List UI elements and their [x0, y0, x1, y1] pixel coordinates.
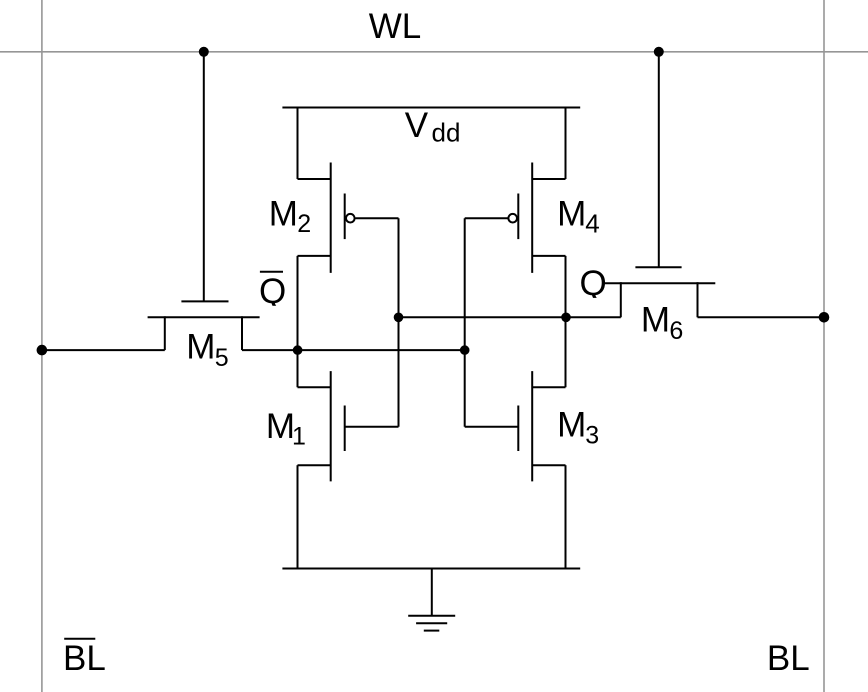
wire M6 drain to BL — [698, 316, 825, 318]
node Q vertical (M4 drain to M3 drain) — [565, 256, 567, 387]
wire M3 source to ground rail — [565, 465, 567, 569]
wire node Q to M1/M2 gate column and M6 source — [399, 316, 621, 318]
overbar of Q-bar — [260, 271, 283, 273]
svg-text:M: M — [557, 406, 586, 445]
transistor M6 (access NMOS, right) — [605, 267, 716, 317]
transistor M3 (NMOS, right pull-down) — [465, 371, 566, 481]
wire WL to M5 gate — [203, 52, 205, 302]
wire BL-bar to M5 source — [42, 349, 165, 351]
junction on WL at M6 gate — [654, 47, 664, 57]
svg-text:1: 1 — [292, 423, 306, 451]
wire M1 source to ground rail — [297, 465, 299, 569]
junction node Q — [561, 313, 571, 323]
node Q-bar vertical (M2 drain to M1 drain) — [297, 256, 299, 387]
junction at M3/M4 gate column — [460, 345, 470, 355]
svg-text:M: M — [269, 195, 298, 234]
Vdd rail — [282, 107, 580, 109]
svg-text:M: M — [557, 195, 586, 234]
svg-text:dd: dd — [432, 118, 461, 148]
svg-text:BL: BL — [767, 639, 810, 678]
svg-text:M: M — [186, 328, 215, 367]
bit line BL (right vertical, gray) — [823, 0, 825, 692]
svg-text:Q: Q — [259, 272, 286, 311]
wire M3/M4 gates column (cross-couple, right) — [464, 218, 466, 427]
junction on BL-bar — [37, 345, 48, 356]
svg-text:3: 3 — [585, 422, 599, 450]
svg-text:M: M — [641, 301, 670, 340]
transistor M4 (PMOS, right pull-up) — [465, 163, 566, 273]
junction at M1/M2 gate column — [394, 313, 404, 323]
ground rail — [282, 568, 580, 570]
bit line BL-bar (left vertical, gray) — [41, 0, 43, 692]
wire Vdd to M2 source — [297, 107, 299, 180]
transistor M2 (PMOS, left pull-up) — [298, 163, 399, 273]
wire Vdd to M4 source — [565, 107, 567, 180]
svg-text:4: 4 — [585, 208, 599, 238]
overbar of BL-bar — [64, 638, 95, 640]
junction on WL at M5 gate — [199, 47, 209, 57]
svg-text:2: 2 — [297, 210, 311, 238]
junction on BL — [819, 312, 830, 323]
ground symbol — [408, 569, 455, 631]
wire M1/M2 gates column (cross-couple, left) — [398, 218, 400, 427]
svg-text:5: 5 — [215, 344, 229, 372]
svg-text:6: 6 — [669, 317, 683, 345]
transistor M5 (access NMOS, left) — [148, 301, 260, 350]
svg-text:WL: WL — [369, 7, 422, 46]
junction node Q-bar — [293, 345, 303, 355]
transistor M1 (NMOS, left pull-down) — [298, 371, 399, 481]
word line WL (horizontal, gray) — [0, 51, 868, 53]
svg-text:Q: Q — [580, 264, 607, 303]
svg-text:V: V — [405, 106, 429, 145]
svg-text:M: M — [266, 407, 295, 446]
wire WL to M6 gate — [658, 52, 660, 267]
wire M5 drain to node Q-bar and on to M3/M4 gate column — [242, 349, 465, 351]
svg-text:BL: BL — [63, 639, 106, 678]
